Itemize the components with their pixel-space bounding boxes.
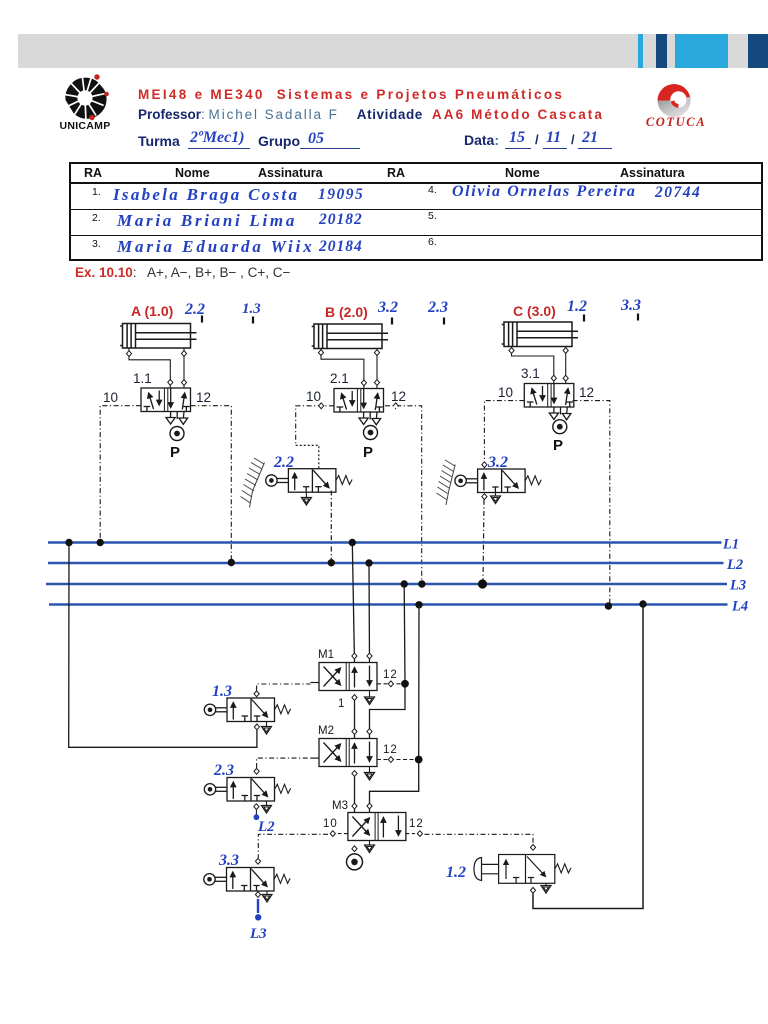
bottom port diamond of valve 3.3 (255, 892, 260, 898)
pilot 10 stub of M2 (311, 757, 320, 759)
wire cylinder B right port to valve 2.1 (374, 349, 379, 389)
svg-text:L3: L3 (729, 578, 746, 594)
signatures table (69, 162, 763, 261)
L3 stub below valve 3.3 (249, 899, 267, 942)
svg-text:1.3: 1.3 (212, 683, 232, 700)
pilot wire 10 of valve 3.1 to valve 3.2 (484, 401, 524, 462)
svg-text:12: 12 (579, 385, 594, 400)
cylinder B (312, 324, 388, 349)
banner light blue block (675, 34, 728, 68)
port 1 diamond below M1 (352, 695, 357, 701)
pilot 10 wire of M3 to valve 3.3 (258, 831, 348, 858)
exhaust of valve 3.3 (262, 891, 272, 903)
svg-text:10: 10 (323, 818, 338, 830)
node L2 x231 (228, 559, 235, 566)
node M2 pilot junction (415, 756, 423, 764)
L2 stub below valve 2.3 (254, 810, 276, 835)
exhaust of valve 3.2 (491, 493, 501, 504)
P source valve 3.1 (553, 420, 567, 454)
output wire of valve 3.2 down to L3 (483, 500, 484, 584)
svg-text:3.1: 3.1 (521, 366, 540, 381)
node L1 x69 (65, 539, 72, 546)
top port diamond of valve 2.3 (254, 768, 259, 774)
pilot wire valve 1.3 to M1 (257, 684, 311, 691)
node L2 x369 (365, 559, 372, 566)
svg-text:12: 12 (391, 389, 406, 404)
top port diamond of valve 3.3 (255, 858, 260, 864)
svg-text:12: 12 (196, 390, 211, 405)
node L3 x482 (478, 579, 487, 588)
node L4 x608 (605, 602, 612, 609)
port diamond below M2 (352, 771, 357, 777)
pilot 12 wire of M1 (377, 681, 401, 687)
line L3 (46, 578, 746, 594)
memory valve M2 (318, 725, 398, 767)
wire L2 feed down to M1 top right (367, 563, 372, 663)
header line 3 (138, 133, 180, 149)
P source of M3 (347, 854, 363, 870)
node L2 x331 (328, 559, 335, 566)
svg-text:2.1: 2.1 (330, 371, 349, 386)
pilot wire 12 of valve 3.1 down to L4 (573, 401, 610, 605)
bottom port diamond of valve 1.2 (530, 887, 535, 893)
exhaust of M2 (365, 767, 375, 781)
svg-text:P: P (553, 437, 563, 454)
svg-text:10: 10 (306, 389, 321, 404)
top port diamond of valve 1.2 (530, 845, 535, 851)
wire cylinder A right port to valve 1.1 (181, 348, 186, 388)
stub label 2.2 (184, 301, 205, 323)
valve 1.2 plunger valve (474, 855, 571, 884)
svg-text:P: P (170, 444, 180, 461)
valve 2.3 roller valve (204, 762, 290, 801)
wire cylinder B left port to valve 2.1 (318, 349, 366, 389)
svg-text:2.3: 2.3 (427, 299, 448, 316)
header line 2 (138, 107, 604, 122)
pilot wire valve 2.3 to M2 (257, 758, 311, 768)
svg-text:L1: L1 (722, 537, 739, 553)
label 1.2 (446, 864, 466, 881)
exhaust of valve 1.3 (262, 722, 272, 735)
svg-text:2.2: 2.2 (273, 454, 294, 471)
mounting wall of valve 3.2 (437, 460, 456, 505)
bottom port diamond of valve 2.3 (254, 804, 259, 810)
P source valve 1.1 (170, 427, 184, 462)
svg-text:12: 12 (383, 669, 398, 681)
valve 3.1 (498, 366, 594, 420)
stub label 2.3 (427, 299, 448, 325)
svg-text:P: P (363, 444, 373, 461)
exercise line (75, 265, 290, 280)
pilot wire 10 of valve 1.1 down to L1 (100, 406, 141, 543)
exhaust of M3 (365, 841, 375, 853)
banner navy stripe (656, 34, 667, 68)
input port diamonds of valve 3.2 (482, 462, 487, 500)
pilot wire 12 of valve 1.1 down to L2 (191, 406, 232, 563)
exhaust of M1 (365, 691, 375, 705)
mounting wall of valve 2.2 (241, 458, 265, 508)
svg-text:2.2: 2.2 (184, 301, 205, 318)
wire L1 feed down to M1 top left (352, 543, 357, 663)
wire L1 down to valve 1.3 supply (69, 543, 257, 748)
valve 1.3 roller valve (204, 683, 290, 722)
pilot wire 12 of valve 2.1 down to L3 (385, 403, 422, 584)
svg-text:L3: L3 (249, 926, 267, 942)
svg-text:M2: M2 (318, 725, 334, 737)
COTUCA logo (636, 80, 716, 132)
stub label 3.3 (620, 297, 641, 321)
valve 1.1 (103, 371, 211, 424)
wire M2 port down to M3 top left (352, 777, 357, 813)
cylinder C (502, 322, 578, 347)
label C (3.0) (513, 303, 556, 319)
svg-text:L2: L2 (726, 557, 743, 573)
wire M1 port1 down to M2 top left (352, 701, 357, 739)
line L2 (48, 557, 743, 573)
svg-text:M3: M3 (332, 800, 348, 812)
stub label 1.3 (242, 301, 261, 324)
svg-text:3.3: 3.3 (620, 297, 641, 314)
wire cylinder A left port to valve 1.1 (126, 348, 172, 388)
svg-text:1.1: 1.1 (133, 371, 152, 386)
label B (2.0) (325, 304, 368, 320)
exhaust of valve 2.2 (301, 492, 311, 505)
svg-text:1.2: 1.2 (567, 298, 587, 315)
wire L4 down right side to valve 1.2 output (533, 604, 643, 909)
port diamond below M3 (352, 846, 357, 852)
stub label 3.2 (377, 299, 398, 325)
bottom port diamond of valve 1.3 (254, 724, 259, 730)
top port diamond of valve 1.3 (254, 691, 259, 697)
svg-text:10: 10 (103, 390, 118, 405)
valve 2.1 (306, 371, 406, 425)
line L1 (48, 537, 739, 553)
svg-text:C (3.0): C (3.0) (513, 303, 556, 319)
svg-text:1.2: 1.2 (446, 864, 466, 881)
valve 3.3 roller valve (204, 852, 290, 891)
node L1 x100 (97, 539, 104, 546)
exhaust of valve 1.2 (541, 883, 551, 893)
node L3 x404 (401, 580, 408, 587)
svg-text:1: 1 (338, 698, 344, 710)
line L4 (49, 599, 748, 615)
banner right navy block (748, 34, 768, 68)
svg-text:3.3: 3.3 (218, 852, 239, 869)
svg-text:2.3: 2.3 (213, 762, 234, 779)
wire L4 feed down to M2 pilot junction and M3 top right (367, 605, 419, 813)
node L4 x419 (415, 601, 422, 608)
UNICAMP logo (55, 72, 117, 134)
wire cylinder C left port to valve 3.1 (509, 347, 557, 384)
node M1 pilot junction (401, 680, 409, 688)
node L1 x352 (349, 539, 356, 546)
memory valve M1 (318, 649, 398, 710)
output wire of valve 2.2 down to L2 (330, 491, 332, 563)
svg-text:1.3: 1.3 (242, 301, 261, 317)
stub label 1.2 (567, 298, 587, 322)
svg-text:B (2.0): B (2.0) (325, 304, 368, 320)
svg-text:12: 12 (383, 744, 398, 756)
svg-text:L2: L2 (257, 819, 275, 835)
pilot 12 wire of M3 to valve 1.2 (405, 831, 533, 844)
wire cylinder C right port to valve 3.1 (563, 347, 568, 384)
header title line 1 (138, 87, 564, 102)
svg-text:M1: M1 (318, 649, 334, 661)
svg-text:A (1.0): A (1.0) (131, 303, 173, 319)
svg-text:12: 12 (409, 818, 424, 830)
pilot wire 10 of valve 2.1 to valve 2.2 (296, 403, 334, 469)
svg-text:10: 10 (498, 385, 513, 400)
node L3 x422 (418, 580, 425, 587)
pilot 12 wire of M2 (377, 757, 414, 763)
P source valve 2.1 (363, 426, 378, 462)
valve 2.2 roller limit valve (266, 454, 352, 492)
svg-text:L4: L4 (731, 599, 748, 615)
svg-text:3.2: 3.2 (377, 299, 398, 316)
valve 3.2 roller limit valve (455, 454, 541, 493)
cylinder A (120, 324, 196, 349)
node L4 x643 (639, 600, 646, 607)
top grey banner (18, 34, 768, 68)
label A (1.0) (131, 303, 173, 319)
memory valve M3 (323, 800, 424, 841)
svg-text:3.2: 3.2 (487, 454, 508, 471)
pilot 10 stub of M1 (311, 682, 320, 684)
wire L3 feed down to M1 pilot junction and M2 top right (367, 584, 405, 739)
exhaust of valve 2.3 (262, 801, 272, 813)
banner light blue thin stripe (638, 34, 643, 68)
